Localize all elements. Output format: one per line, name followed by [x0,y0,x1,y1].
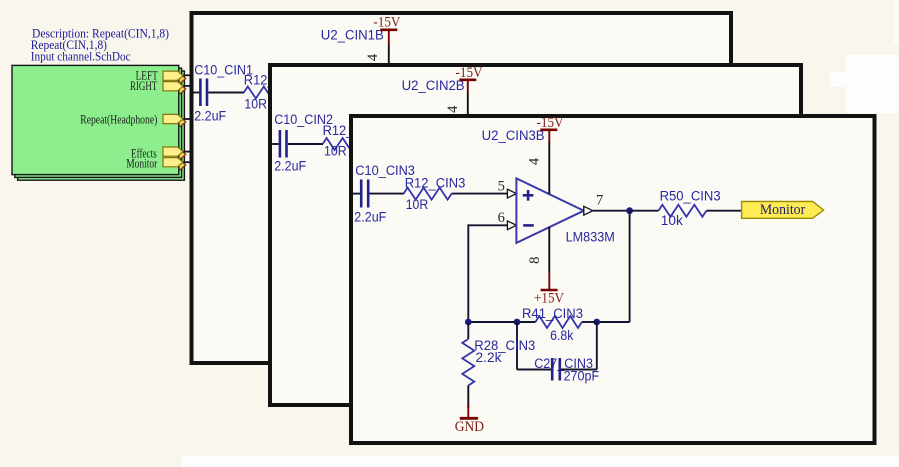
wire from border to C10_CIN1 [193,92,200,94]
wire R12_CIN3 to pin 5 [452,193,508,195]
wire output node to R50 [630,210,659,212]
port LEFT [136,69,183,83]
port Monitor (sheet3 output) [742,202,824,219]
svg-text:Repeat(Headphone): Repeat(Headphone) [80,112,157,126]
wire C27 branch left vertical [516,322,518,370]
wire stub port Repeat(Headphone) [178,118,192,120]
svg-text:4: 4 [445,105,461,113]
white patch small left of it [830,72,853,87]
resistor R12_CIN1 (clipped by sheet2) [244,73,304,112]
resistor R41_CIN3 [522,306,583,343]
white patch right of sheet2 corner [846,55,899,113]
capacitor C10_CIN2 [274,112,333,174]
junction feedback left node [465,319,472,326]
ground GND [455,405,484,435]
svg-text:U2_CIN3B: U2_CIN3B [482,128,545,143]
white patch top-right sliver [893,0,899,45]
svg-text:2.2uF: 2.2uF [274,159,306,174]
power -15V (sheet1) [373,14,400,45]
svg-text:270pF: 270pF [564,369,600,384]
wire C10_CIN3 to R12_CIN3 [370,193,405,195]
svg-text:6: 6 [498,210,505,226]
capacitor C27_CIN3 [534,356,599,383]
wire C27 left lead [517,369,551,371]
wire C10_CIN1 to R12 [208,92,244,94]
svg-text:+15V: +15V [534,290,564,306]
pin 4 line (sheet1, into hidden op-amp) [388,45,390,68]
power +15V (sheet3) [534,273,564,307]
junction feedback right [593,319,600,326]
wire stub port LEFT [178,74,192,76]
svg-text:R50_CIN3: R50_CIN3 [660,189,721,204]
sheet2 border [270,65,801,405]
resistor R12_CIN3 [404,176,466,213]
pin 4 line (sheet3) [548,142,550,194]
svg-text:6.8k: 6.8k [550,328,574,343]
svg-text:10R: 10R [406,197,429,212]
pin 8 line (sheet3) [548,227,550,272]
wire C10_CIN2 to R12 [288,143,323,145]
sheet symbol U_Input channel (main green block) [12,65,179,174]
svg-text:R12_CIN3: R12_CIN3 [405,176,466,191]
wire feedback horizontal left segment [467,321,517,323]
junction output node [626,207,633,214]
svg-text:LM833M: LM833M [566,230,615,245]
pin 7 output arrow [584,206,593,215]
wire output node down [629,211,631,322]
wire output pin7 to junction [593,210,631,212]
svg-text:7: 7 [596,192,603,208]
wire R41 left lead [517,321,535,323]
svg-text:4: 4 [365,53,381,61]
white area bottom strip [182,456,899,467]
sheet symbol stack copy 1 [15,68,186,177]
wire C27 branch right vertical [596,322,598,370]
pin 4 line (sheet2, into hidden op-amp) [467,93,469,118]
sheet1 border [192,13,732,363]
svg-text:4: 4 [526,157,542,165]
svg-text:Monitor: Monitor [760,202,805,218]
wire R28 top lead [467,322,469,339]
power -15V (sheet3) [537,115,564,142]
wire from border to C10_CIN3 [353,193,361,195]
op-amp U2_CIN3B triangle [516,178,614,244]
capacitor C10_CIN1 [194,62,253,123]
wire R28 bottom lead [467,386,469,409]
sheet symbol stack copy 2 (back) [18,71,185,180]
capacitor C10_CIN3 [354,163,415,224]
wire C27 right lead [561,369,597,371]
svg-text:5: 5 [498,178,505,194]
svg-text:8: 8 [527,257,543,264]
resistor R50_CIN3 [658,189,720,229]
wire from border to C10_CIN2 [272,143,280,145]
svg-text:-15V: -15V [373,14,400,30]
svg-text:R41_CIN3: R41_CIN3 [522,306,583,321]
port Repeat(Headphone) [80,112,183,126]
wire stub port Effects [178,151,192,153]
svg-text:Input channel.SchDoc: Input channel.SchDoc [31,49,131,63]
wire pin6 vertical down to feedback node [467,224,469,322]
svg-text:10R: 10R [324,143,347,158]
pin 6 arrow [507,221,516,230]
port RIGHT [130,79,183,93]
wire stub port Monitor (block) [178,161,192,163]
svg-text:RIGHT: RIGHT [130,79,158,93]
power -15V (sheet2) [456,65,483,93]
svg-text:10R: 10R [244,96,267,111]
svg-text:GND: GND [455,419,484,435]
wire stub port RIGHT [178,85,192,87]
svg-text:Monitor: Monitor [126,157,158,171]
wire R50 to port Monitor [706,210,741,212]
port Monitor (block) [126,157,183,171]
svg-text:10k: 10k [661,213,683,228]
wire R41 right lead [582,321,597,323]
wire pin6 horizontal [468,224,508,226]
port Effects [131,147,183,161]
wire feedback horizontal right segment [597,321,630,323]
svg-text:2.2uF: 2.2uF [194,108,226,123]
pin 5 arrow [507,189,516,198]
resistor R12_CIN2 (clipped by sheet3) [323,123,383,158]
resistor R28_CIN3 [462,338,535,386]
svg-text:2.2uF: 2.2uF [354,209,386,224]
junction feedback mid [514,319,521,326]
sheet3 border [351,116,875,443]
svg-text:2.2k: 2.2k [476,350,502,365]
